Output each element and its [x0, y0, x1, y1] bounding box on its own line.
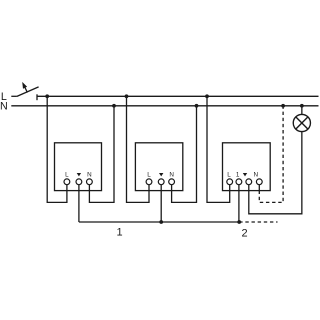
node bus U3 1 [237, 220, 241, 224]
wire U2 out drop [160, 185, 162, 222]
terminal U2 N [169, 179, 175, 185]
terminal U3 L [227, 179, 233, 185]
terminal U1 out [76, 179, 82, 185]
wire U2 N return [172, 106, 197, 203]
svg-text:1: 1 [236, 171, 240, 178]
wire bus 2 dashed extension [239, 221, 277, 223]
node L to U3 [205, 94, 209, 98]
wire U3 N dashed return [259, 106, 283, 203]
terminal U3 N [256, 179, 262, 185]
terminal U1 N [87, 179, 93, 185]
wire U3 out to lamp [249, 132, 302, 214]
wire U1 out drop [78, 185, 80, 222]
node N from U1 [112, 104, 116, 108]
switch S1 actuation arrow [22, 82, 27, 93]
svg-text:N: N [87, 171, 92, 178]
device U3 box [223, 143, 271, 191]
wire U3 L drop [207, 96, 230, 202]
node N to lamp [300, 104, 304, 108]
label U2 output arrow [159, 173, 163, 176]
wire U3 1 drop [238, 185, 240, 222]
wire U3 N stub [258, 185, 260, 191]
wire L line [37, 95, 319, 97]
node L to U2 [125, 94, 129, 98]
node bus U2 out [159, 220, 163, 224]
svg-text:L: L [227, 171, 231, 178]
terminal U3 out [246, 179, 252, 185]
device U2 box [135, 143, 182, 191]
svg-text:N: N [169, 171, 174, 178]
wire L feed stub [11, 95, 17, 97]
svg-text:2: 2 [241, 228, 247, 240]
wire U1 N return [89, 106, 114, 203]
label U3 output arrow [243, 173, 247, 176]
node N from U2 [195, 104, 199, 108]
terminal U2 out [158, 179, 164, 185]
svg-text:N: N [254, 171, 259, 178]
label U1 output arrow [77, 173, 81, 176]
lamp E1 [293, 106, 310, 132]
svg-text:L: L [147, 171, 151, 178]
switch S1 fixed contact [36, 94, 38, 100]
svg-text:1: 1 [116, 226, 122, 238]
wire U2 L drop [127, 96, 150, 202]
device U1 box [55, 143, 102, 191]
svg-text:L: L [65, 171, 69, 178]
terminal U1 L [64, 179, 70, 185]
switch S1 lever [17, 87, 39, 97]
node N dashed from U3 [281, 104, 285, 108]
svg-text:N: N [0, 101, 8, 113]
wire U1 L drop [47, 96, 67, 202]
wire control bus 1 [79, 221, 239, 223]
terminal U3 1 [236, 179, 242, 185]
wire N line [11, 105, 318, 107]
terminal U2 L [146, 179, 152, 185]
node L to U1 [45, 94, 49, 98]
